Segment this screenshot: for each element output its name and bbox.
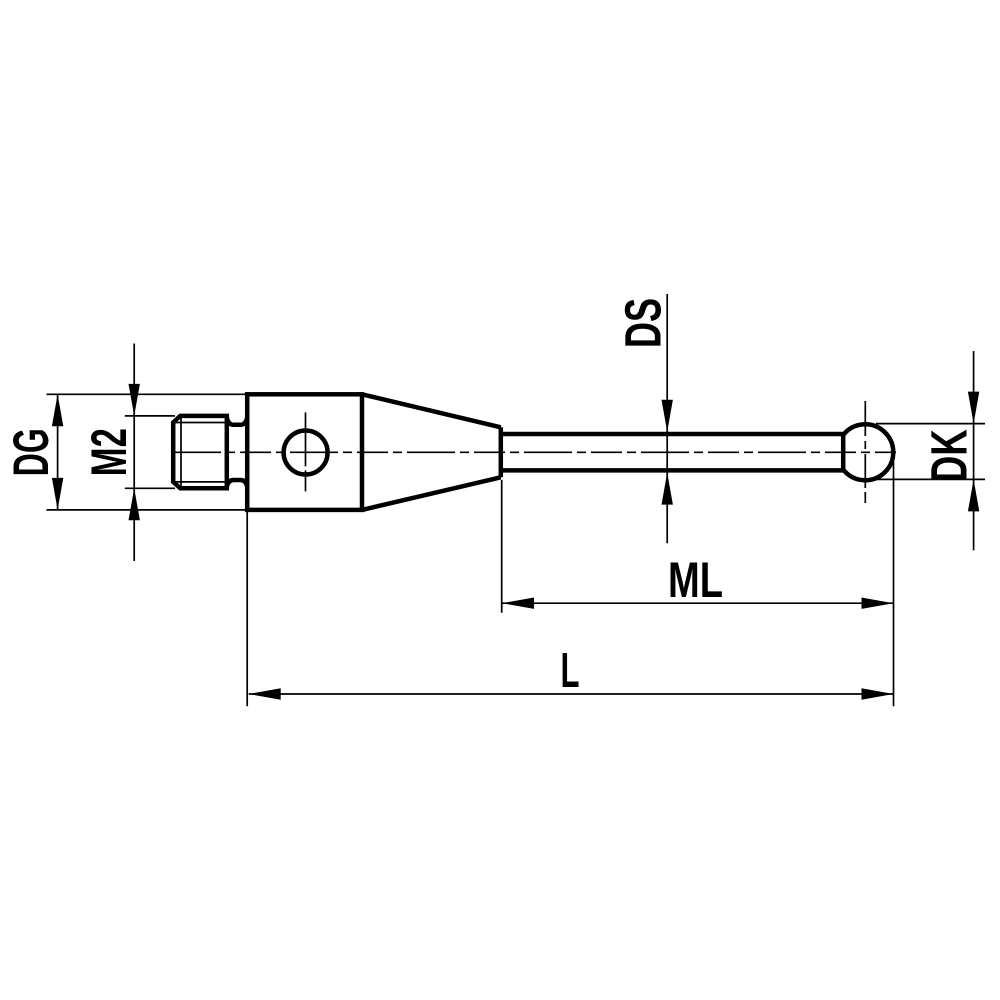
- DG arrow up: [52, 394, 63, 426]
- DS arrow up: [662, 473, 673, 505]
- ML dimension line: [502, 602, 894, 604]
- L arrow left: [249, 688, 281, 699]
- holder body: [247, 394, 362, 510]
- M2 dimension line: [133, 344, 135, 562]
- neck bottom contour: [227, 480, 247, 487]
- stem top line: [501, 432, 843, 437]
- M2 top extension line: [125, 415, 175, 417]
- taper bottom edge: [362, 477, 501, 510]
- DS dimension line: [666, 294, 668, 543]
- stem bottom line: [501, 468, 843, 473]
- L arrow right: [862, 688, 894, 699]
- thread chamfer vertical line: [180, 416, 182, 488]
- thread stub M2 outline: [173, 416, 227, 488]
- M2 arrow up: [129, 488, 140, 520]
- DG arrow down: [52, 478, 63, 510]
- ML arrow left: [502, 598, 534, 609]
- taper top edge: [362, 394, 501, 427]
- ML left extension line: [501, 480, 503, 613]
- DK bottom extension line: [876, 478, 985, 480]
- main centerline: [173, 451, 896, 453]
- DK arrow up: [968, 479, 979, 511]
- DK top extension line: [876, 423, 985, 425]
- shared right extension line: [893, 461, 895, 706]
- hole vertical crosshair: [305, 412, 307, 491]
- cone end vertical edge: [499, 427, 504, 477]
- DK dimension line: [973, 351, 975, 550]
- holder hole circle: [284, 431, 328, 475]
- L left extension line: [246, 512, 248, 706]
- DG dimension line: [57, 394, 59, 510]
- M2 arrow down: [129, 384, 140, 416]
- thread minor diameter top line: [173, 422, 227, 424]
- svg-text:DG: DG: [3, 428, 59, 476]
- DG bottom extension line: [47, 509, 246, 511]
- svg-text:L: L: [561, 644, 580, 698]
- ball arc: [843, 424, 893, 480]
- DK arrow down: [968, 392, 979, 424]
- ball vertical crosshair: [864, 401, 866, 504]
- svg-text:M2: M2: [81, 428, 137, 476]
- DG top extension line: [47, 393, 246, 395]
- svg-text:DS: DS: [615, 298, 672, 348]
- DS arrow down: [662, 400, 673, 432]
- L dimension line: [249, 693, 894, 695]
- stem end cap line: [841, 434, 846, 470]
- svg-text:ML: ML: [668, 552, 723, 608]
- ML arrow right: [862, 598, 894, 609]
- thread minor diameter bottom line: [173, 481, 227, 483]
- neck top contour: [227, 418, 247, 425]
- svg-text:DK: DK: [921, 429, 978, 482]
- M2 bottom extension line: [125, 487, 175, 489]
